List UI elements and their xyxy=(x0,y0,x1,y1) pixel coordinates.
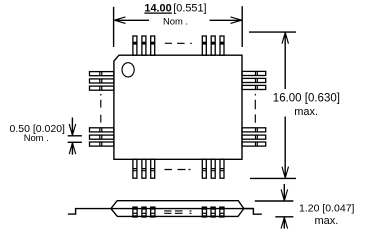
side pin section SR2 xyxy=(211,207,215,217)
side view centerline dash rows xyxy=(164,211,191,213)
side view body outline xyxy=(111,201,244,217)
dim 14.00 arrow right xyxy=(231,17,242,24)
pin B5 xyxy=(211,159,215,178)
pin T2 xyxy=(142,36,146,55)
svg-text:Nom .: Nom . xyxy=(24,132,49,143)
pin L6 xyxy=(90,142,114,146)
side view left lead xyxy=(68,209,111,215)
dim 14.00 extension line left xyxy=(113,7,115,47)
pin T5 xyxy=(211,36,215,55)
pin 1 index circle xyxy=(122,63,134,77)
pin T3 xyxy=(151,36,155,55)
side view pin sections right group xyxy=(202,207,224,217)
package body (top view) xyxy=(114,55,242,159)
dim 0.50 arrow up (below) xyxy=(69,143,76,155)
dim 14.00 underline xyxy=(144,12,172,14)
pin top-left group xyxy=(133,36,155,55)
pin R4 xyxy=(242,128,266,132)
dim 16.00 extension line top xyxy=(249,31,296,33)
svg-text:max.: max. xyxy=(315,215,339,227)
pin L1 xyxy=(90,72,114,76)
pin top-right group xyxy=(202,36,224,55)
side pin section SR1 xyxy=(202,207,206,217)
dim 1.20 arrow down (above) xyxy=(281,184,288,201)
side view right lead xyxy=(244,209,262,215)
pin R3 xyxy=(242,85,266,89)
side pin section SL2 xyxy=(142,207,146,217)
dim 16.00 arrow down xyxy=(282,167,289,178)
pin bottom-left group xyxy=(133,159,155,178)
dim 1.20 extension line top xyxy=(255,200,294,202)
centerline dash-dot right xyxy=(254,94,256,123)
pin right-bottom group xyxy=(242,128,266,146)
dim 14.00 dimension line right segment xyxy=(210,19,242,21)
dim 1.20 arrow up (below) xyxy=(281,217,288,228)
pin B2 xyxy=(142,159,146,178)
centerline dash-dot left xyxy=(100,94,102,123)
centerline dash-dot top xyxy=(165,42,192,44)
svg-text:16.00 [0.630]: 16.00 [0.630] xyxy=(273,93,340,105)
pin R5 xyxy=(242,135,266,139)
pin R1 xyxy=(242,71,266,75)
svg-text:1.20 [0.047]: 1.20 [0.047] xyxy=(299,203,355,215)
pin L4 xyxy=(90,128,114,132)
dim 14.00 dimension line left segment xyxy=(115,19,150,21)
dim 16.00 arrow up xyxy=(282,32,289,43)
pin T6 xyxy=(220,36,224,55)
pin L5 xyxy=(90,135,114,139)
side view pin sections left group xyxy=(133,207,155,217)
dim 14.00 extension line right xyxy=(241,6,243,47)
pin bottom-right group xyxy=(202,159,224,178)
dim 1.20 extension line bottom xyxy=(275,216,293,218)
dim 16.00 extension line bottom xyxy=(250,177,296,179)
svg-text:Nom .: Nom . xyxy=(163,16,188,27)
pin right-top group xyxy=(242,71,266,89)
pin T1 xyxy=(133,36,137,55)
pin T4 xyxy=(202,36,206,55)
dim 0.50 arrow down (above) xyxy=(69,118,76,136)
side pin section SL1 xyxy=(133,207,137,217)
pin B3 xyxy=(151,159,155,178)
pin B1 xyxy=(133,159,137,178)
side view lead line through body xyxy=(111,208,254,210)
pin B6 xyxy=(220,159,224,178)
pin R6 xyxy=(242,142,266,146)
dim 0.50 extension line upper xyxy=(68,135,82,137)
pin L3 xyxy=(90,86,114,90)
pin B4 xyxy=(202,159,206,178)
centerline dash-dot bottom xyxy=(165,169,191,171)
svg-text:max.: max. xyxy=(294,106,318,118)
pin left-bottom group xyxy=(90,128,114,146)
side pin section SR3 xyxy=(220,207,224,217)
dim 16.00 dimension line upper segment xyxy=(284,32,286,89)
dim 0.50 extension line lower xyxy=(68,141,82,143)
dim 16.00 dimension line lower segment xyxy=(284,117,286,179)
pin L2 xyxy=(90,79,114,83)
pin R2 xyxy=(242,78,266,82)
side pin section SL3 xyxy=(151,207,155,217)
dim 14.00 arrow left xyxy=(114,17,125,24)
pin left-top group xyxy=(90,72,114,91)
